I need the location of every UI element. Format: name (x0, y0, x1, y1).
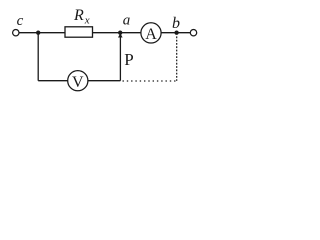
dotted wire vertical below node b (176, 36, 178, 81)
wire from terminal c to resistor (19, 32, 65, 34)
svg-text:A: A (145, 26, 157, 43)
wire junction down left side (37, 33, 39, 81)
arrowhead pointing up into node a (118, 33, 123, 37)
ammeter U1 circle (141, 23, 161, 43)
wire bottom left to voltmeter (38, 80, 67, 82)
svg-text:c: c (17, 13, 24, 29)
wire voltmeter to point P corner (88, 80, 120, 82)
voltmeter U2 circle (68, 71, 88, 91)
terminal b (open circle) (190, 30, 196, 36)
dotted wire horizontal bottom right (123, 80, 178, 82)
svg-text:b: b (172, 15, 180, 32)
junction node at top-left (36, 31, 40, 35)
svg-text:P: P (124, 50, 133, 69)
svg-text:R: R (73, 7, 84, 24)
wire P branch up to node a (119, 34, 121, 81)
svg-text:V: V (72, 74, 84, 91)
svg-text:x: x (84, 14, 90, 26)
wire resistor to ammeter (93, 32, 141, 34)
node b (174, 31, 178, 35)
svg-text:a: a (123, 12, 131, 28)
resistor R_x body (65, 27, 93, 37)
terminal c (open circle) (13, 30, 19, 36)
node a (118, 31, 122, 35)
wire ammeter to node b (161, 32, 190, 34)
